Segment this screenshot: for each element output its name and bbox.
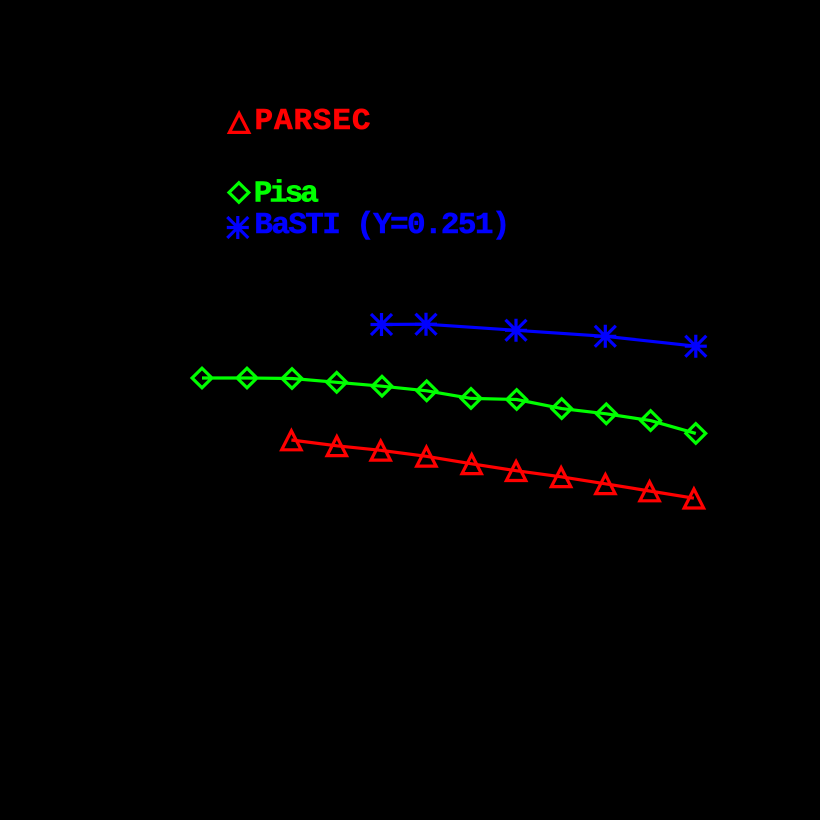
marker green diamond 7: [461, 389, 481, 409]
marker green diamond 1: [192, 368, 212, 388]
curve BaSTI (blue, asterisk markers): [371, 313, 707, 358]
marker red triangle 2: [327, 437, 346, 456]
marker red triangle 3: [371, 441, 390, 460]
marker red triangle 8: [596, 475, 615, 494]
svg-text:BaSTI (Y=0.251): BaSTI (Y=0.251): [254, 208, 510, 243]
marker red triangle 10: [684, 489, 703, 508]
marker red triangle 1: [282, 431, 301, 450]
marker green diamond 10: [596, 404, 616, 424]
marker blue asterisk 5: [685, 335, 707, 358]
marker blue asterisk 4: [594, 325, 616, 348]
curve PARSEC (red, triangle markers): [282, 431, 704, 508]
marker green diamond 11: [641, 411, 661, 431]
marker red triangle 6: [506, 462, 525, 481]
marker blue asterisk 3: [505, 319, 527, 342]
marker red triangle 4: [417, 447, 436, 466]
marker green diamond 3: [282, 369, 302, 389]
marker green diamond 9: [552, 399, 572, 419]
marker blue asterisk 1: [371, 313, 393, 336]
marker red triangle 9: [640, 482, 659, 501]
marker green diamond 4: [327, 373, 347, 393]
wire green polyline: [202, 378, 696, 433]
legend marker blue asterisk: [227, 216, 249, 239]
svg-text:PARSEC: PARSEC: [255, 104, 371, 139]
marker red triangle 5: [462, 455, 481, 474]
legend marker red triangle: [229, 113, 248, 132]
legend marker green diamond: [229, 183, 249, 203]
wire blue polyline: [382, 324, 696, 346]
marker green diamond 8: [507, 390, 527, 410]
marker green diamond 12: [686, 424, 706, 444]
marker green diamond 5: [372, 376, 392, 396]
marker red triangle 7: [551, 468, 570, 487]
curve Pisa (green, diamond markers): [192, 368, 706, 443]
marker green diamond 2: [237, 368, 257, 388]
wire red polyline: [291, 440, 694, 498]
marker blue asterisk 2: [415, 313, 437, 336]
svg-text:Pisa: Pisa: [254, 177, 319, 212]
marker green diamond 6: [417, 381, 437, 401]
